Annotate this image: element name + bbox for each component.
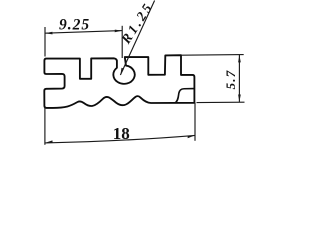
dim 9.25: extension line right — [121, 26, 123, 58]
dim 5.7: bottom arrow — [238, 95, 241, 102]
dim 18: dimension line — [45, 135, 195, 143]
svg-text:9.25: 9.25 — [59, 17, 90, 34]
svg-text:5.7: 5.7 — [223, 70, 238, 90]
dim 18: left arrow — [45, 140, 53, 143]
dim 9.25: extension line left — [44, 27, 46, 57]
dim 18: extension line right — [194, 103, 196, 141]
dim 5.7: extension line bottom — [197, 101, 245, 103]
dim 5.7: dimension line — [238, 55, 240, 102]
svg-text:18: 18 — [113, 124, 130, 143]
dim 5.7: extension line top — [182, 54, 244, 57]
dim 9.25: right arrow — [115, 30, 123, 33]
dim R1.25: arrowhead — [120, 68, 124, 75]
dim 18: extension line left — [44, 107, 46, 145]
profile outline — [44, 55, 194, 108]
dim 18: right arrow — [188, 135, 195, 138]
dim 5.7: top arrow — [238, 55, 241, 62]
dim 9.25: dimension line — [45, 31, 122, 34]
dim 9.25: left arrow — [45, 32, 53, 35]
internal corner line bottom-right — [175, 89, 195, 103]
dim R1.25: leader line — [120, 1, 154, 76]
